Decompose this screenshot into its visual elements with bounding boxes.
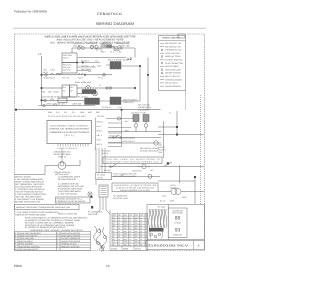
tall relay boxes bbox=[62, 85, 77, 97]
svg-text:Publication No: 5995434606: Publication No: 5995434606 bbox=[14, 10, 47, 14]
svg-text:SYMBOLS USED KEY: SYMBOLS USED KEY bbox=[162, 37, 181, 40]
svg-text:A: A bbox=[198, 244, 200, 248]
svg-text:MFG CODE: MFG CODE bbox=[172, 212, 183, 215]
svg-text:SW CONTACT NC: SW CONTACT NC bbox=[165, 45, 181, 48]
svg-text:3: 3 bbox=[145, 222, 146, 225]
L2 bus x148 bbox=[147, 58, 149, 110]
svg-text:TOD 16A: TOD 16A bbox=[81, 64, 89, 67]
svg-text:BAKE: BAKE bbox=[54, 91, 60, 94]
svg-text:HEAT ELEMENT: HEAT ELEMENT bbox=[165, 65, 180, 68]
svg-text:1 2 3 4 5 6 7 8 9 10 11 12: 1 2 3 4 5 6 7 8 9 10 11 12 bbox=[57, 147, 77, 150]
svg-text:L1: L1 bbox=[39, 52, 43, 56]
svg-text:BC 14: BC 14 bbox=[160, 200, 165, 203]
svg-text:FUSE LINK 120V: FUSE LINK 120V bbox=[165, 52, 180, 55]
svg-text:SIZ: SIZ bbox=[129, 214, 132, 217]
svg-text:BLK 2: BLK 2 bbox=[97, 125, 102, 128]
svg-text:CONVECTION MOTOR: CONVECTION MOTOR bbox=[61, 240, 81, 243]
svg-text:2: 2 bbox=[145, 219, 146, 222]
svg-text:VOL: VOL bbox=[135, 214, 138, 217]
svg-text:P11: P11 bbox=[64, 111, 67, 114]
svg-text:N.O. SW: N.O. SW bbox=[62, 76, 69, 79]
svg-text:WHT 6: WHT 6 bbox=[97, 143, 103, 146]
svg-text:EL HORNO OU REMPLACER DES PIEC: EL HORNO OU REMPLACER DES PIECES bbox=[25, 226, 66, 229]
EOC box bbox=[47, 121, 92, 144]
svg-text:6: 6 bbox=[145, 230, 146, 233]
svg-text:120: 120 bbox=[135, 224, 138, 227]
svg-text:BC 1400: BC 1400 bbox=[158, 206, 165, 209]
svg-text:RED: RED bbox=[96, 111, 100, 114]
bottom-center paragraph bbox=[25, 217, 88, 230]
fuse cluster left bbox=[43, 69, 56, 75]
left notes block bbox=[15, 175, 47, 203]
svg-text:BK: BK bbox=[119, 51, 122, 54]
svg-text:P3: P3 bbox=[140, 230, 142, 233]
svg-text:PIN DETAIL VIEW: PIN DETAIL VIEW bbox=[113, 197, 128, 200]
svg-text:BAKE ELEMENT: BAKE ELEMENT bbox=[19, 240, 34, 243]
dark blob components bbox=[82, 90, 96, 94]
svg-text:BROIL 3000W 240V: BROIL 3000W 240V bbox=[75, 81, 92, 84]
svg-text:COL: COL bbox=[124, 214, 128, 217]
rung B y72 bbox=[42, 73, 113, 76]
svg-text:DLB RELAY CONT: DLB RELAY CONT bbox=[131, 112, 147, 115]
svg-text:P2: P2 bbox=[140, 227, 142, 230]
total row bbox=[110, 246, 148, 251]
svg-text:BLK: BLK bbox=[125, 120, 129, 123]
pin label row above EOC bbox=[48, 115, 104, 118]
convection motor group bbox=[53, 151, 71, 159]
svg-text:14: 14 bbox=[129, 238, 131, 241]
svg-text:10: 10 bbox=[129, 216, 131, 219]
svg-text:120V: 120V bbox=[162, 195, 167, 198]
pigtail scribbles bbox=[94, 226, 107, 252]
header rule bbox=[13, 27, 206, 30]
svg-text:12: 12 bbox=[118, 222, 120, 225]
svg-text:88: 88 bbox=[175, 216, 181, 222]
svg-text:SW K2: SW K2 bbox=[63, 57, 69, 60]
svg-text:RELAY COIL 12V: RELAY COIL 12V bbox=[165, 75, 181, 78]
grid cell text bbox=[113, 214, 148, 217]
svg-text:ELECTRONIC CONTROL: ELECTRONIC CONTROL bbox=[19, 245, 40, 248]
svg-text:L: L bbox=[57, 245, 58, 248]
svg-text:DISCONNECTION WIRING ERRORS CA: DISCONNECTION WIRING ERRORS CAN bbox=[107, 161, 160, 164]
svg-text:IN DOOR UNLOCKED: IN DOOR UNLOCKED bbox=[140, 149, 159, 152]
svg-text:120: 120 bbox=[135, 235, 138, 238]
svg-text:12: 12 bbox=[129, 241, 131, 244]
svg-text:DOOR LATCH SWITCH: DOOR LATCH SWITCH bbox=[61, 235, 81, 238]
svg-text:OVEN LIGHT SWITCH: OVEN LIGHT SWITCH bbox=[19, 235, 38, 238]
top rung y48 bbox=[72, 43, 135, 57]
arrow note right bbox=[102, 147, 159, 155]
full width wire y109.5 bbox=[15, 109, 161, 111]
svg-text:WIRE: WIRE bbox=[123, 248, 129, 251]
right motor cluster bbox=[158, 165, 204, 204]
svg-text:P10: P10 bbox=[56, 111, 59, 114]
svg-text:BROIL ELEMENT 3400W: BROIL ELEMENT 3400W bbox=[108, 59, 129, 62]
wire from frame to motor bbox=[15, 160, 81, 175]
svg-text:N.C.: N.C. bbox=[150, 169, 154, 172]
junction dots bbox=[41, 65, 149, 111]
svg-text:WIRE NUT CONN: WIRE NUT CONN bbox=[165, 55, 181, 58]
svg-text:P1 CONN: P1 CONN bbox=[97, 174, 106, 177]
svg-text:28 GA: 28 GA bbox=[135, 248, 141, 251]
svg-text:10: 10 bbox=[129, 222, 131, 225]
svg-text:240: 240 bbox=[135, 222, 138, 225]
svg-text:16: 16 bbox=[118, 227, 120, 230]
svg-text:ORN 1a: ORN 1a bbox=[97, 120, 104, 123]
svg-text:HI-LIMIT THERMOSTAT: HI-LIMIT THERMOSTAT bbox=[61, 237, 81, 240]
svg-text:WIRING ERRORS CAN CAUSE: WIRING ERRORS CAN CAUSE bbox=[120, 189, 151, 192]
svg-text:P4: P4 bbox=[140, 233, 142, 236]
svg-text:N 14: N 14 bbox=[118, 106, 122, 109]
stubs to bus bbox=[96, 110, 136, 150]
svg-text:WARNING: DISCONNECT POWER BEFO: WARNING: DISCONNECT POWER BEFORE SERVICI… bbox=[16, 206, 71, 209]
svg-text:CF 1: CF 1 bbox=[110, 51, 114, 54]
svg-text:EB08: EB08 bbox=[14, 264, 22, 268]
svg-text:MOTOR: MOTOR bbox=[170, 186, 177, 189]
wire grid left vertical bbox=[109, 210, 111, 246]
svg-text:FUSE: FUSE bbox=[50, 69, 56, 72]
svg-text:N.O.: N.O. bbox=[95, 60, 99, 63]
svg-text:5: 5 bbox=[145, 227, 146, 230]
svg-text:BK SW 12: BK SW 12 bbox=[81, 60, 89, 63]
right area wires bbox=[158, 91, 204, 205]
svg-text:TERMINAL BOARD: TERMINAL BOARD bbox=[165, 78, 182, 81]
svg-text:L2: L2 bbox=[99, 84, 101, 87]
door latch text bbox=[113, 173, 137, 179]
svg-text:WHT: WHT bbox=[124, 219, 128, 222]
svg-text:P10 P11: P10 P11 bbox=[97, 115, 104, 118]
wire labels right of EOC bbox=[97, 120, 104, 146]
rung y105.5 bbox=[39, 104, 96, 107]
svg-text:SW CONTACT NO: SW CONTACT NO bbox=[165, 42, 181, 45]
right mid rungs bbox=[108, 115, 161, 146]
svg-text:BAKE RELAY: BAKE RELAY bbox=[44, 76, 56, 79]
caution box 2 bbox=[112, 183, 158, 192]
L1 bus bbox=[41, 56, 43, 106]
svg-text:J: J bbox=[57, 240, 58, 243]
svg-text:WHT: WHT bbox=[88, 111, 93, 114]
svg-text:CABLES ANTES DE DESCONECTAR: CABLES ANTES DE DESCONECTAR bbox=[116, 186, 155, 189]
pin ticks below EOC bbox=[58, 144, 88, 147]
svg-text:ADVERTENCIA: ETIQUETE TODOS LO: ADVERTENCIA: ETIQUETE TODOS LOS bbox=[114, 184, 157, 187]
svg-text:8: 8 bbox=[145, 235, 146, 238]
text under rung B bbox=[44, 76, 103, 79]
svg-text:CAV 2: CAV 2 bbox=[78, 76, 83, 79]
legend header sub-box bbox=[178, 34, 185, 38]
svg-text:(EOC): (EOC) bbox=[64, 134, 74, 137]
EOC downward wires right bbox=[62, 148, 105, 173]
svg-text:OVEN VENT FAN MOTOR: OVEN VENT FAN MOTOR bbox=[19, 232, 41, 235]
svg-text:120: 120 bbox=[135, 227, 138, 230]
svg-text:120: 120 bbox=[135, 219, 138, 222]
svg-text:2500W 240V: 2500W 240V bbox=[123, 101, 134, 104]
svg-text:1: 1 bbox=[145, 216, 146, 219]
svg-text:REL 2: REL 2 bbox=[101, 51, 106, 54]
svg-text:LP:GAS: LP:GAS bbox=[174, 221, 182, 224]
svg-text:16 PIN: 16 PIN bbox=[97, 176, 103, 179]
svg-text:P3 1 2 3 4 5 6 7 8 9 10 11 12: P3 1 2 3 4 5 6 7 8 9 10 11 12 13 14 15 1… bbox=[48, 115, 86, 118]
svg-text:TOTAL: TOTAL bbox=[111, 248, 118, 251]
svg-text:OVEN TOD: OVEN TOD bbox=[132, 170, 142, 173]
svg-text:WIRE NOT SUPPLIED: WIRE NOT SUPPLIED bbox=[61, 245, 80, 248]
svg-text:L1: L1 bbox=[140, 216, 142, 219]
svg-text:RL2: RL2 bbox=[70, 86, 73, 89]
diagram frame bbox=[15, 34, 205, 251]
svg-text:BEFORE SERVICING UNIT: BEFORE SERVICING UNIT bbox=[15, 200, 41, 203]
svg-text:BL: BL bbox=[113, 230, 115, 233]
svg-text:ELECTRONIC OVEN CONTROL: ELECTRONIC OVEN CONTROL bbox=[50, 124, 89, 127]
svg-text:CONTROL DEL HORNO ELECTRONICO: CONTROL DEL HORNO ELECTRONICO bbox=[49, 128, 89, 131]
svg-text:MOTOR WINDING: MOTOR WINDING bbox=[165, 72, 181, 75]
svg-text:PELIGRO: DESCONECTE LA: PELIGRO: DESCONECTE LA bbox=[57, 198, 83, 201]
svg-text:DOOR SW: DOOR SW bbox=[109, 135, 118, 138]
latch wire y176.4 bbox=[112, 174, 160, 179]
svg-text:TIMER IN OFF POSITION MODE: TIMER IN OFF POSITION MODE bbox=[15, 214, 46, 217]
svg-text:16: 16 bbox=[118, 233, 120, 236]
svg-text:7: 7 bbox=[145, 233, 146, 236]
svg-text:12: 12 bbox=[129, 219, 131, 222]
svg-text:14: 14 bbox=[129, 227, 131, 230]
svg-text:BROIL ELEMENT: BROIL ELEMENT bbox=[19, 243, 34, 246]
caution box 1 bbox=[103, 157, 162, 164]
rev bar bbox=[146, 241, 204, 250]
svg-text:16: 16 bbox=[118, 230, 120, 233]
svg-text:14: 14 bbox=[129, 235, 131, 238]
svg-text:19: 19 bbox=[106, 264, 110, 268]
svg-text:FRAME GROUND: FRAME GROUND bbox=[165, 85, 181, 88]
svg-text:P3 CONNECTOR: P3 CONNECTOR bbox=[113, 195, 128, 198]
svg-text:240V: 240V bbox=[97, 64, 102, 67]
svg-text:31656010B REV :: 31656010B REV : bbox=[148, 244, 192, 248]
svg-text:PLUG CONNECTOR: PLUG CONNECTOR bbox=[165, 62, 183, 65]
wire color grid bbox=[112, 213, 148, 246]
mid-bottom connector column bbox=[96, 173, 112, 180]
svg-text:RED 3: RED 3 bbox=[97, 129, 102, 132]
svg-text:60HZ: 60HZ bbox=[182, 196, 187, 199]
svg-text:CAUTION: LABEL ALL WIRES PRIOR: CAUTION: LABEL ALL WIRES PRIOR TO bbox=[106, 158, 161, 161]
svg-text:16: 16 bbox=[118, 238, 120, 241]
svg-text:P1: P1 bbox=[140, 224, 142, 227]
box A bbox=[56, 197, 91, 203]
svg-text:GRN: GRN bbox=[170, 200, 175, 203]
svg-text:L2: L2 bbox=[169, 112, 171, 115]
svg-text:SPLICE JOINT: SPLICE JOINT bbox=[165, 82, 179, 85]
svg-text:PIN DETAIL: PIN DETAIL bbox=[88, 213, 98, 216]
svg-text:ORN: ORN bbox=[80, 111, 85, 114]
svg-text:SWITCH SHOWN LOCKED: SWITCH SHOWN LOCKED bbox=[113, 175, 136, 178]
svg-text:93: 93 bbox=[175, 228, 181, 234]
svg-text:VIO 5: VIO 5 bbox=[97, 138, 102, 141]
svg-text:OVEN LAMP 40W: OVEN LAMP 40W bbox=[19, 237, 34, 240]
svg-text:P5: P5 bbox=[140, 235, 142, 238]
transformer hatched 1 bbox=[106, 62, 140, 102]
transformer hatched 2 bbox=[110, 97, 121, 105]
svg-text:CODE NO: CODE NO bbox=[173, 234, 182, 237]
thermostat wire y166.7 bbox=[100, 162, 204, 169]
relay box K1 bbox=[62, 53, 77, 63]
svg-text:12: 12 bbox=[118, 216, 120, 219]
svg-text:PS 14: PS 14 bbox=[98, 76, 103, 79]
K1 right side wires bbox=[77, 63, 100, 72]
svg-text:YL: YL bbox=[113, 227, 115, 230]
svg-text:14: 14 bbox=[129, 224, 131, 227]
svg-text:THERMOSTAT SW: THERMOSTAT SW bbox=[165, 49, 181, 52]
svg-text:240: 240 bbox=[135, 216, 138, 219]
legend box top-right bbox=[159, 34, 186, 91]
text rows under y109.5 bbox=[48, 111, 100, 114]
top notes text bbox=[45, 35, 136, 44]
svg-text:14: 14 bbox=[118, 241, 120, 244]
bottom-left legend table bbox=[15, 232, 91, 251]
bottom right panel outer box bbox=[147, 205, 204, 240]
small circle symbol bbox=[88, 192, 92, 196]
svg-text:4: 4 bbox=[145, 224, 146, 227]
rung y100.5 bbox=[42, 98, 85, 102]
code cell bbox=[168, 208, 187, 238]
svg-text:DE DAR SERVICIO: DE DAR SERVICIO bbox=[58, 178, 76, 181]
svg-text:P6: P6 bbox=[140, 238, 142, 241]
svg-text:120: 120 bbox=[135, 238, 138, 241]
svg-text:GRY 4: GRY 4 bbox=[97, 134, 102, 137]
svg-text:BRN: BRN bbox=[48, 111, 52, 114]
svg-text:NOTE 4: LATCH SW: NOTE 4: LATCH SW bbox=[58, 213, 77, 216]
svg-text:120: 120 bbox=[135, 230, 138, 233]
box B bbox=[15, 204, 80, 209]
svg-text:TERMINAL BLOCK: TERMINAL BLOCK bbox=[61, 243, 77, 246]
svg-text:16: 16 bbox=[118, 235, 120, 238]
svg-text:6. SEE THE INSTALL: 6. SEE THE INSTALL bbox=[58, 192, 79, 195]
svg-text:LAMP 40W: LAMP 40W bbox=[72, 102, 81, 105]
element circles bbox=[42, 86, 136, 96]
svg-text:INDICATOR LAMP: INDICATOR LAMP bbox=[165, 68, 182, 71]
svg-text:14: 14 bbox=[129, 233, 131, 236]
svg-text:SW 2: SW 2 bbox=[48, 91, 52, 94]
wires below bbox=[96, 180, 110, 214]
svg-text:CHASSIS GROUND: CHASSIS GROUND bbox=[165, 59, 183, 62]
svg-text:DOOR LATCH MOTOR: DOOR LATCH MOTOR bbox=[61, 232, 81, 235]
svg-text:16: 16 bbox=[118, 224, 120, 227]
svg-text:P12: P12 bbox=[72, 111, 75, 114]
svg-text:COIL N.O.: COIL N.O. bbox=[63, 69, 72, 72]
svg-text:SEE DIAGRAM NOTES: SEE DIAGRAM NOTES bbox=[19, 248, 39, 251]
svg-text:MDL: MDL bbox=[42, 91, 46, 94]
svg-text:WIRING DIAGRAM: WIRING DIAGRAM bbox=[96, 22, 134, 26]
svg-text:120: 120 bbox=[135, 233, 138, 236]
svg-text:LATCH SW N.C.: LATCH SW N.C. bbox=[122, 140, 136, 143]
svg-text:L2: L2 bbox=[140, 222, 142, 225]
svg-text:CORRIENTE ANTES DE SERVIR: CORRIENTE ANTES DE SERVIR bbox=[57, 200, 86, 203]
svg-text:YEL: YEL bbox=[124, 227, 127, 230]
svg-text:MDL SW 2: MDL SW 2 bbox=[81, 68, 90, 71]
svg-text:14: 14 bbox=[129, 230, 131, 233]
svg-text:OVEN LIGHT SW 120V: OVEN LIGHT SW 120V bbox=[46, 102, 66, 105]
svg-text:RL1: RL1 bbox=[63, 86, 66, 89]
svg-text:DOOR LATCH MOTOR CAM: DOOR LATCH MOTOR CAM bbox=[113, 173, 137, 176]
svg-text:COMMANDE DE FOUR ELECTRONIQUE: COMMANDE DE FOUR ELECTRONIQUE bbox=[49, 131, 90, 134]
svg-text:14: 14 bbox=[118, 219, 120, 222]
svg-text:BR: BR bbox=[70, 90, 73, 93]
wiring harness art bbox=[149, 209, 167, 228]
svg-text:P7 BLK 12: P7 BLK 12 bbox=[102, 106, 111, 109]
ladder labels row 1 bbox=[73, 42, 131, 47]
svg-text:FEB30T6CG: FEB30T6CG bbox=[97, 12, 123, 16]
svg-text:RED: RED bbox=[125, 130, 129, 133]
svg-text:BK: BK bbox=[63, 90, 66, 93]
